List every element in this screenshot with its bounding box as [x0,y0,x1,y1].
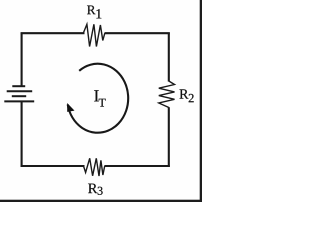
resistor R1 [83,24,105,46]
wire left lower segment [21,101,23,167]
wire top-right segment [105,32,170,34]
label R2 [180,89,194,102]
wire right upper segment [168,33,170,82]
current loop arrow IT [68,64,128,133]
resistor R3 [84,158,105,176]
wire bottom-left segment [21,165,85,167]
wire left upper segment [21,33,23,87]
wire right lower segment [168,107,170,167]
label R1 [87,6,101,19]
label R3 [88,184,103,195]
resistor R2 [159,81,175,108]
wire top-left segment [21,32,85,34]
battery B1 [4,86,34,101]
wire bottom-right segment [104,165,169,167]
label IT [94,90,105,106]
arrowhead of current loop [67,103,74,112]
